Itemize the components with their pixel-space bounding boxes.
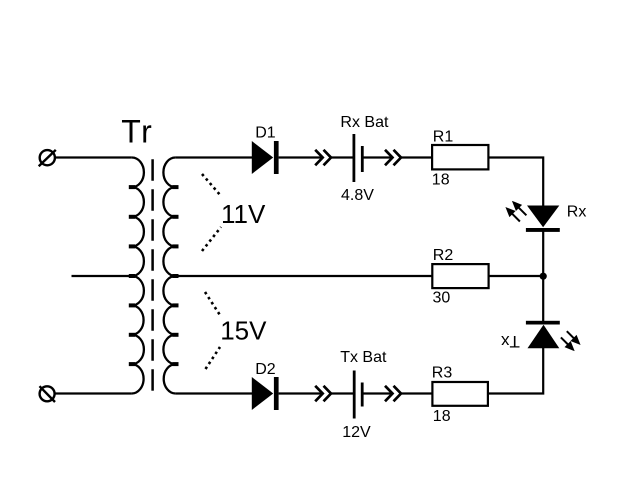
svg-text:R2: R2 [433, 247, 454, 264]
svg-text:Tx: Tx [500, 332, 519, 351]
svg-text:Tx Bat: Tx Bat [340, 349, 387, 366]
svg-text:15V: 15V [220, 316, 267, 346]
svg-text:4.8V: 4.8V [341, 187, 374, 204]
svg-text:11V: 11V [221, 199, 266, 229]
svg-text:R3: R3 [432, 365, 453, 382]
svg-text:18: 18 [433, 408, 451, 425]
svg-text:12V: 12V [342, 424, 371, 441]
svg-text:18: 18 [432, 172, 450, 189]
svg-text:Rx Bat: Rx Bat [340, 114, 389, 131]
svg-text:D2: D2 [255, 361, 276, 378]
svg-text:R1: R1 [433, 128, 454, 145]
svg-text:D1: D1 [255, 125, 276, 142]
svg-text:Rx: Rx [567, 204, 587, 221]
svg-text:30: 30 [433, 289, 451, 306]
svg-text:Tr: Tr [121, 113, 153, 149]
